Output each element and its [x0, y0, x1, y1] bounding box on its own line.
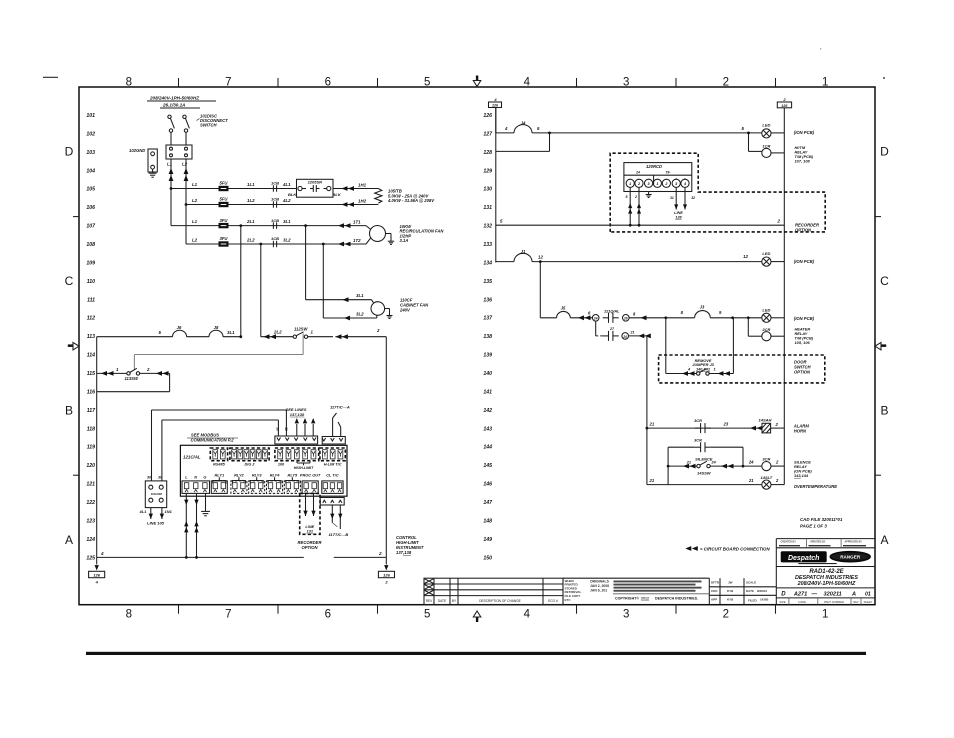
svg-text:20: 20 [622, 335, 627, 339]
RS485 port [210, 448, 227, 461]
svg-text:21: 21 [649, 478, 655, 483]
svg-text:3CR: 3CR [694, 438, 702, 443]
svg-text:1: 1 [822, 609, 828, 621]
connector pin wires to lines 137/138 [296, 424, 298, 436]
svg-text:21: 21 [630, 331, 635, 335]
svg-text:121Q/AL: 121Q/AL [604, 310, 620, 314]
svg-text:3.1A: 3.1A [400, 238, 409, 243]
svg-text:126: 126 [492, 104, 499, 108]
svg-text:OPTION: OPTION [795, 228, 812, 233]
svg-text:121: 121 [86, 482, 95, 488]
wire row 108 fan L2 [186, 243, 366, 245]
terminal block 103TB [166, 145, 192, 159]
svg-text:RS485: RS485 [213, 463, 225, 467]
wire loop line 128 [549, 133, 551, 152]
svg-text:RLY4: RLY4 [270, 473, 280, 478]
cabinet fan motor 110CF [371, 302, 385, 316]
svg-text:N: N [194, 475, 197, 480]
svg-text:J4: J4 [521, 121, 526, 126]
svg-text:1: 1 [822, 76, 828, 88]
recorder option box [300, 493, 320, 534]
svg-text:119: 119 [87, 445, 95, 451]
H-LIM T/C port [320, 448, 345, 461]
svg-text:126: 126 [781, 104, 788, 108]
svg-text:L2: L2 [182, 162, 188, 167]
svg-text:143: 143 [483, 426, 492, 432]
svg-text:2: 2 [777, 219, 781, 224]
svg-text:2L2: 2L2 [246, 238, 255, 243]
svg-text:CAD FILE 320011*01: CAD FILE 320011*01 [800, 517, 843, 522]
svg-text:144: 144 [483, 445, 492, 451]
right rail [783, 108, 785, 485]
svg-text:APPROVED BY: APPROVED BY [845, 541, 863, 544]
revision table [424, 578, 563, 605]
svg-text:JAN 2, 2008: JAN 2, 2008 [590, 584, 609, 588]
sheet centre arrow left [68, 344, 74, 347]
svg-text:136: 136 [483, 297, 492, 303]
wires 31/32 from 120RCD [675, 187, 677, 209]
svg-text:121C/AL: 121C/AL [183, 455, 201, 460]
relay output RLY4 [267, 481, 283, 494]
wire line 146 [647, 484, 762, 486]
svg-text:26: 26 [623, 317, 628, 321]
svg-text:31: 31 [670, 196, 674, 200]
wire line 125 [97, 556, 304, 558]
svg-text:8: 8 [126, 76, 132, 88]
wire L1 feeder [170, 159, 172, 226]
fuse 5FU-2 [219, 202, 229, 207]
footer rule [86, 652, 866, 655]
svg-text:133: 133 [483, 242, 492, 248]
breaker 2CB-1 [272, 222, 274, 228]
svg-text:120: 120 [86, 463, 95, 469]
svg-text:32: 32 [691, 196, 695, 200]
wire line 134 [496, 261, 514, 263]
svg-text:320211: 320211 [824, 591, 842, 597]
svg-text:CL T/C: CL T/C [326, 473, 339, 478]
svg-text:122: 122 [86, 500, 95, 506]
svg-text:L2: L2 [192, 238, 198, 243]
fuse 3FU-2 [219, 241, 229, 246]
svg-text:L2: L2 [192, 198, 198, 203]
silence switch 14SSW line 145 [668, 465, 697, 467]
svg-text:24: 24 [593, 317, 598, 321]
svg-text:2L2: 2L2 [273, 330, 282, 335]
fuse 3FU-1 [219, 223, 229, 228]
wire drop 3L2 to line 112 [322, 244, 324, 318]
svg-text:JW: JW [728, 581, 733, 585]
door switch wires [646, 336, 648, 428]
svg-text:125: 125 [86, 555, 95, 561]
svg-text:1T2: 1T2 [353, 238, 361, 243]
wire row 107 fan L1 [171, 225, 366, 227]
circuit board connection legend [685, 546, 691, 551]
sheet centre arrow bottom [476, 617, 478, 623]
svg-text:D: D [65, 145, 74, 159]
svg-text:21: 21 [748, 478, 754, 483]
left rail [96, 337, 98, 558]
svg-text:J6: J6 [177, 325, 182, 330]
svg-text:126: 126 [93, 573, 100, 578]
svg-text:4.0KW - 31.56A @ 208V: 4.0KW - 31.56A @ 208V [387, 198, 435, 203]
border frame [79, 87, 875, 605]
wire line 111 cabinet fan feed [306, 299, 372, 301]
svg-text:3L1: 3L1 [227, 330, 235, 335]
svg-text:3: 3 [623, 609, 629, 621]
recirculation fan motor 104RF [370, 226, 386, 242]
wire line 143 [647, 427, 762, 429]
svg-text:128: 128 [675, 215, 682, 219]
svg-text:142: 142 [483, 408, 492, 414]
svg-text:B: B [880, 404, 888, 418]
svg-text:HORN: HORN [794, 429, 807, 434]
recorder option outline (dashed) [610, 153, 825, 232]
svg-text:1CR: 1CR [762, 144, 770, 149]
svg-text:116: 116 [87, 389, 95, 395]
svg-text:SCALE: SCALE [746, 581, 756, 585]
wire drop 134 to 137 [539, 262, 541, 318]
svg-text:DESCRIPTION OF CHANGE: DESCRIPTION OF CHANGE [479, 599, 521, 603]
terminal 20 [622, 333, 629, 340]
svg-text:127: 127 [483, 131, 493, 137]
wire line 117 [152, 409, 287, 411]
svg-text:102GND: 102GND [129, 148, 145, 153]
svg-text:208/240V-1PH-50/60HZ: 208/240V-1PH-50/60HZ [149, 96, 199, 101]
svg-text:2: 2 [634, 195, 637, 199]
relay output RLY5 [284, 481, 300, 494]
svg-text:2: 2 [376, 328, 380, 333]
svg-text:117T/C—B: 117T/C—B [329, 532, 349, 537]
svg-text:SWITCH: SWITCH [200, 123, 217, 128]
svg-text:D: D [880, 145, 889, 159]
dashed option contact line 138 [595, 321, 597, 336]
svg-text:109: 109 [86, 260, 95, 266]
svg-text:ORIGINALS: ORIGINALS [590, 580, 610, 584]
controller ground wire [205, 493, 207, 507]
svg-text:(ION PCB): (ION PCB) [794, 316, 815, 321]
jumper J5 [557, 311, 571, 317]
wire line 137 [540, 317, 556, 319]
svg-text:1: 1 [714, 368, 716, 372]
svg-text:132: 132 [483, 224, 492, 230]
svg-text:123: 123 [86, 518, 95, 524]
svg-text:PAGE 1 OF 3: PAGE 1 OF 3 [800, 524, 827, 529]
svg-text:3L2: 3L2 [283, 238, 291, 243]
svg-text:4L1: 4L1 [139, 509, 148, 514]
svg-text:OPTION: OPTION [301, 545, 318, 550]
svg-text:(ION PCB): (ION PCB) [794, 130, 815, 135]
svg-text:J3: J3 [700, 305, 705, 310]
temperature controller 121C/AL [180, 445, 347, 496]
svg-text:124: 124 [86, 537, 95, 543]
CL T/C terminals [322, 481, 343, 494]
wire line 118 [162, 419, 279, 421]
door switch option box [659, 355, 825, 383]
svg-text:RLY5: RLY5 [288, 473, 298, 478]
recorder terminal board 120RCD [624, 163, 692, 192]
svg-text:30: 30 [147, 476, 151, 480]
svg-text:01: 01 [865, 591, 871, 597]
disconnect switch 101DISC [168, 115, 171, 118]
svg-text:24: 24 [635, 171, 640, 175]
svg-text:UPDATED BY: UPDATED BY [810, 541, 826, 544]
svg-text:APP: APP [711, 598, 717, 602]
svg-text:12: 12 [743, 254, 748, 259]
svg-text:7: 7 [225, 609, 231, 621]
svg-text:PROC OUT: PROC OUT [300, 473, 321, 478]
door switch 140SW [697, 372, 700, 375]
svg-text:H-LIM T/C: H-LIM T/C [324, 463, 342, 467]
svg-text:105, 106: 105, 106 [795, 340, 811, 345]
svg-text:30: 30 [158, 476, 162, 480]
svg-text:4: 4 [524, 609, 531, 621]
svg-text:1CB: 1CB [271, 181, 279, 186]
jumper J1 [514, 253, 532, 261]
svg-text:4: 4 [504, 126, 508, 131]
svg-text:REV: REV [853, 600, 859, 604]
svg-text:208/240V-1PH-50/60HZ: 208/240V-1PH-50/60HZ [797, 581, 856, 587]
controller supply wires to line 125 [185, 493, 187, 557]
svg-text:RLY2: RLY2 [234, 473, 244, 478]
svg-text:CKD: CKD [711, 589, 718, 593]
svg-text:120RCD: 120RCD [646, 164, 662, 169]
svg-text:139: 139 [483, 353, 492, 359]
svg-text:3L2: 3L2 [356, 312, 364, 317]
svg-text:L1: L1 [167, 162, 173, 167]
controller t/c connector P3 [322, 437, 345, 445]
svg-text:FILED: FILED [748, 599, 757, 603]
wires below 101120M [150, 508, 152, 519]
svg-text:B: B [65, 404, 73, 418]
svg-text:1H1: 1H1 [358, 183, 367, 188]
svg-text:114: 114 [87, 353, 95, 359]
svg-text:117T/C—A: 117T/C—A [330, 405, 350, 410]
breaker 1CB-2 [272, 201, 274, 207]
svg-text:24: 24 [711, 461, 717, 465]
svg-text:6: 6 [325, 76, 331, 88]
svg-text:1: 1 [656, 182, 658, 186]
svg-text:128: 128 [483, 150, 492, 156]
svg-text:110: 110 [87, 279, 95, 285]
svg-text:14SAH: 14SAH [759, 418, 772, 423]
svg-text:105: 105 [86, 187, 95, 193]
left rail (right half) [495, 108, 497, 263]
wire drop 2L2 to line 113 [260, 244, 262, 337]
svg-text:3L1: 3L1 [356, 293, 364, 298]
svg-text:30: 30 [276, 427, 280, 431]
svg-text:A: A [880, 533, 888, 547]
svg-text:CREATED BY: CREATED BY [781, 541, 797, 544]
svg-text:107, 108: 107, 108 [795, 159, 811, 164]
recorder option wires [305, 493, 307, 516]
svg-text:PART NUMBER: PART NUMBER [824, 600, 844, 604]
svg-text:3FU: 3FU [220, 236, 229, 241]
svg-text:ECO #: ECO # [548, 599, 558, 603]
svg-text:= CIRCUIT BOARD CONNECTION: = CIRCUIT BOARD CONNECTION [700, 547, 770, 552]
relay output RLY3 [249, 481, 265, 494]
svg-text:LED: LED [762, 123, 770, 128]
svg-text:DFTR: DFTR [711, 581, 720, 585]
svg-text:118: 118 [87, 426, 95, 432]
svg-text:3L1: 3L1 [283, 219, 291, 224]
svg-text:RANGER: RANGER [840, 555, 861, 560]
svg-text:4L1: 4L1 [282, 182, 291, 187]
svg-text:JAN 6, 201: JAN 6, 201 [590, 588, 607, 592]
switch 112SW [293, 335, 296, 338]
svg-text:1CB: 1CB [271, 197, 279, 202]
svg-text:149: 149 [483, 537, 492, 543]
svg-text:1205SR: 1205SR [308, 180, 323, 185]
svg-text:106: 106 [86, 205, 95, 211]
size/code labels [788, 598, 790, 605]
svg-text:3FU: 3FU [220, 218, 229, 223]
relay 1CR line 128 [748, 133, 750, 152]
svg-text:104: 104 [86, 168, 95, 174]
sheet centre arrow top [476, 76, 478, 82]
svg-text:126: 126 [483, 113, 492, 119]
svg-text:108: 108 [86, 242, 95, 248]
svg-text:12: 12 [538, 255, 543, 260]
stray scan marks [43, 76, 58, 78]
svg-text:DATE: DATE [438, 599, 446, 603]
svg-text:143,144: 143,144 [794, 473, 809, 478]
svg-text:113SW: 113SW [125, 376, 139, 381]
svg-text:101: 101 [86, 113, 95, 119]
svg-text:C: C [880, 274, 889, 288]
svg-text:1L2: 1L2 [247, 198, 255, 203]
svg-text:A: A [851, 591, 856, 597]
svg-text:129: 129 [483, 168, 492, 174]
svg-text:5FU: 5FU [220, 181, 229, 186]
svg-text:14285: 14285 [760, 598, 769, 602]
svg-text:4L2: 4L2 [282, 198, 291, 203]
svg-text:RAD1-42-2E: RAD1-42-2E [809, 569, 844, 575]
svg-text:24: 24 [748, 460, 754, 465]
jumper J6 [173, 330, 187, 336]
svg-text:5FU: 5FU [220, 197, 229, 202]
svg-text:21: 21 [686, 461, 691, 465]
svg-text:3CR: 3CR [762, 457, 770, 462]
wire line 112 cabinet fan return [323, 317, 377, 319]
wire row 106 heater L2 [186, 204, 378, 206]
terminal 26 [623, 315, 630, 322]
svg-text:RLY3: RLY3 [252, 473, 262, 478]
svg-text:113: 113 [87, 334, 95, 340]
svg-text:LINE 105: LINE 105 [147, 521, 165, 526]
svg-text:ETC: ETC [565, 598, 572, 602]
wire drop line 113 to line 125 [385, 337, 387, 558]
svg-text:KYB: KYB [727, 589, 734, 593]
svg-text:1L1: 1L1 [247, 182, 255, 187]
svg-text:138: 138 [483, 334, 492, 340]
svg-text:14SLT: 14SLT [761, 475, 773, 480]
signature table [709, 586, 776, 588]
svg-text:J5: J5 [561, 306, 566, 311]
svg-text:KYB: KYB [727, 598, 734, 602]
relay 2CR line 138 [747, 318, 749, 336]
svg-text:101120M: 101120M [151, 492, 163, 496]
DIO port [275, 448, 319, 461]
continuation to sheet 2 left [96, 557, 98, 564]
jumper J8 [209, 330, 223, 336]
terminal block L N G [182, 481, 210, 494]
wire line 115 [97, 372, 127, 374]
svg-text:137,138: 137,138 [396, 550, 412, 555]
svg-text:115: 115 [87, 371, 95, 377]
svg-text:1CB: 1CB [271, 236, 279, 241]
svg-text:145: 145 [483, 463, 492, 469]
svg-text:5: 5 [424, 76, 430, 88]
svg-text:1N1: 1N1 [165, 509, 173, 514]
svg-text:2L1: 2L1 [246, 219, 255, 224]
svg-text:BLK: BLK [333, 192, 342, 197]
wire drop 3L1 to line 111 [305, 226, 307, 300]
svg-text:30: 30 [284, 427, 288, 431]
svg-text:SILENCE: SILENCE [695, 457, 713, 462]
svg-text:2: 2 [146, 367, 150, 372]
Ranger oval logo [830, 552, 870, 562]
svg-text:5: 5 [424, 609, 430, 621]
svg-text:130: 130 [483, 187, 492, 193]
svg-text:L1: L1 [192, 219, 198, 224]
svg-text:2012: 2012 [641, 597, 649, 601]
svg-text:7: 7 [225, 76, 231, 88]
solid state relay 1205SR [297, 179, 334, 197]
svg-text:LED: LED [762, 308, 770, 313]
svg-text:4: 4 [100, 551, 104, 556]
print-control note block [562, 578, 564, 605]
svg-text:G: G [203, 475, 206, 480]
svg-text:111: 111 [87, 297, 95, 303]
svg-text:COPYRIGHT©: COPYRIGHT© [615, 597, 639, 601]
svg-text:150: 150 [483, 555, 492, 561]
svg-text:(ION PCB): (ION PCB) [794, 259, 815, 264]
svg-text:CODE: CODE [798, 600, 806, 604]
svg-text:100: 100 [278, 463, 285, 467]
svg-text:OVERTEMPERATURE: OVERTEMPERATURE [794, 484, 838, 489]
svg-text:J8: J8 [214, 325, 219, 330]
svg-text:L1: L1 [192, 182, 198, 187]
svg-text:26.1/30.1A: 26.1/30.1A [162, 103, 185, 108]
switch 113SW [127, 372, 130, 375]
svg-text:—: — [811, 591, 818, 597]
svg-text:141: 141 [483, 389, 492, 395]
svg-text:148: 148 [483, 518, 492, 524]
wire drop 3L1 to line 113 [240, 226, 242, 337]
svg-text:126: 126 [383, 573, 390, 578]
svg-text:146: 146 [483, 482, 492, 488]
svg-text:2: 2 [723, 76, 729, 88]
power monitor 101120M [145, 481, 166, 508]
svg-text:131: 131 [307, 529, 314, 534]
wire line 114 [134, 354, 303, 356]
relay output RLY2 [231, 481, 247, 494]
svg-text:107: 107 [86, 224, 96, 230]
svg-text:21: 21 [649, 422, 655, 427]
jumper J4 [514, 125, 532, 133]
jumper J3 [695, 311, 711, 318]
svg-text:LED: LED [762, 251, 770, 256]
svg-text:REV: REV [426, 599, 433, 603]
Despatch logo [781, 551, 827, 562]
svg-text:3: 3 [623, 76, 629, 88]
svg-text:134: 134 [483, 260, 492, 266]
fuse 5FU-1 [219, 186, 229, 191]
svg-text:D: D [781, 591, 786, 597]
svg-text:4: 4 [524, 76, 531, 88]
svg-text:8: 8 [126, 609, 132, 621]
svg-text:DATE: DATE [746, 589, 754, 593]
